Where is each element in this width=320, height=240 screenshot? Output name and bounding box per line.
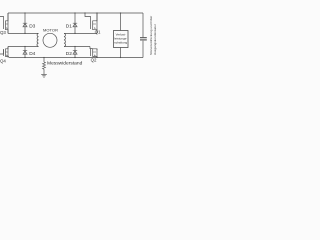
node junction dots on top rail [24,12,121,13]
svg-text:Q3: Q3 [0,30,6,35]
svg-text:schaltung: schaltung [114,40,127,44]
wire resistor to ground [43,70,45,74]
transistor Q1 [85,13,97,33]
wire right vertical lower [142,41,144,58]
svg-text:D1: D1 [66,23,72,29]
node junction dots on bottom rail [24,57,121,58]
wire top rail [8,12,143,14]
wire lower middle right segment (node B right) [64,46,90,48]
transistor Q4 [0,47,9,58]
svg-text:Q4: Q4 [0,58,6,63]
transistor Q3 [0,13,8,33]
wire D1 leg [74,13,76,33]
wire left transistor leg upper [7,13,9,33]
svg-text:Q2: Q2 [91,57,97,62]
wire dissipation box leg lower [120,48,122,58]
resistor R1 measuring resistor [43,62,46,70]
wire bottom rail [9,57,143,59]
ground [41,75,47,78]
wire lower middle left segment (node B left) [8,46,39,48]
svg-text:D4: D4 [29,51,35,57]
wire right vertical (capacitor leg) [142,13,144,37]
wire upper middle left segment (node A left) [8,32,39,34]
svg-text:Messwiderstand: Messwiderstand [47,61,83,67]
capacitor C1 (output capacitor) [140,38,147,40]
wire right transistor leg lower [96,49,98,58]
diode D3 [23,23,27,27]
wire dissipation box leg [120,13,122,31]
dissipation circuit box U1 [114,31,129,48]
inductor L2 (right suppression choke) [64,33,66,46]
diode D2 [73,51,77,55]
wire D3 leg [24,13,26,33]
node junction dots on middle wires [24,33,75,47]
wire upper middle right segment (node A right) [64,32,97,34]
inductor L1 (left suppression choke) [37,33,39,46]
motor M1 [43,33,57,47]
wire D4 leg [24,47,26,58]
wire right transistor leg upper [96,13,98,33]
wire left transistor leg lower [7,47,9,58]
diode D4 [23,51,27,55]
svg-text:D2: D2 [66,51,72,57]
svg-text:MOTOR: MOTOR [43,28,58,33]
svg-text:D3: D3 [29,23,35,29]
svg-text:Ausgangskondensator: Ausgangskondensator [153,24,157,55]
svg-text:Q1: Q1 [95,30,101,35]
wire measuring resistor branch [43,58,45,63]
diode D1 [73,23,77,27]
transistor Q2 [90,47,97,58]
wire D2 leg [74,47,76,58]
